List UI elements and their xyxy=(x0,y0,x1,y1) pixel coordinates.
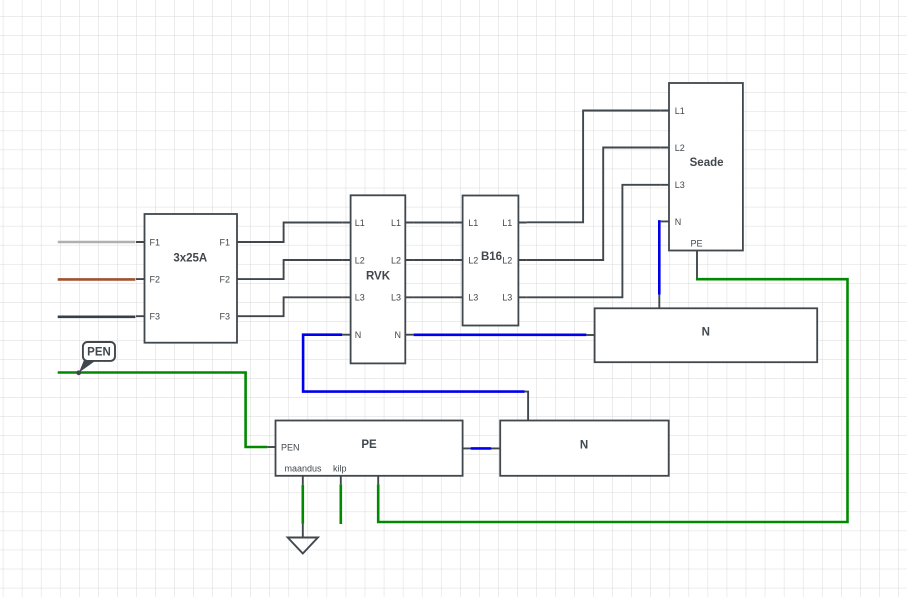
svg-text:L2: L2 xyxy=(502,255,512,265)
wire F3 3x25A to RVK L3 xyxy=(246,297,343,316)
svg-text:N: N xyxy=(702,327,710,339)
svg-text:RVK: RVK xyxy=(366,271,391,283)
stub dark PE box bottom pin 3 xyxy=(377,476,379,485)
svg-text:PEN: PEN xyxy=(281,443,300,453)
svg-text:F1: F1 xyxy=(150,237,161,247)
svg-text:PE: PE xyxy=(690,238,702,248)
busbar PE xyxy=(276,421,463,476)
device Seade xyxy=(661,83,743,251)
svg-text:maandus: maandus xyxy=(284,463,322,473)
svg-text:N: N xyxy=(355,330,362,340)
svg-text:L1: L1 xyxy=(391,218,401,228)
wire B16 L1 to Seade L1 xyxy=(527,111,661,223)
svg-text:L2: L2 xyxy=(391,255,401,265)
wire RVK L2 to B16 L2 xyxy=(414,259,455,261)
svg-text:F1: F1 xyxy=(219,237,230,247)
svg-text:L3: L3 xyxy=(355,293,365,303)
svg-text:L3: L3 xyxy=(468,293,478,303)
stub dark maandus pin xyxy=(302,476,304,485)
svg-text:L2: L2 xyxy=(468,255,478,265)
svg-text:L1: L1 xyxy=(468,218,478,228)
wire green PEN feeder xyxy=(58,373,268,448)
stub dark kilp pin xyxy=(340,476,342,485)
wire blue RVK N to N busbar left xyxy=(414,333,587,336)
svg-text:L1: L1 xyxy=(355,218,365,228)
busbar N upper xyxy=(586,308,817,362)
wire green PE loop Seade to PE box xyxy=(378,279,847,522)
svg-text:L2: L2 xyxy=(355,255,365,265)
wire dark riser into N box 2 top xyxy=(525,392,529,421)
svg-text:L3: L3 xyxy=(675,180,685,190)
ground symbol xyxy=(288,524,318,554)
svg-text:L3: L3 xyxy=(502,293,512,303)
svg-text:Seade: Seade xyxy=(690,157,724,169)
feeder wire L2 (brown) xyxy=(58,278,136,281)
svg-text:PE: PE xyxy=(361,439,377,451)
svg-text:B16: B16 xyxy=(481,251,502,263)
svg-text:F2: F2 xyxy=(219,275,230,285)
svg-text:L1: L1 xyxy=(675,106,685,116)
breaker B16 xyxy=(454,196,526,326)
wire RVK L1 to B16 L1 xyxy=(414,222,455,224)
svg-text:L2: L2 xyxy=(675,143,685,153)
svg-text:F3: F3 xyxy=(150,312,161,322)
wire F2 3x25A to RVK L2 xyxy=(246,260,343,279)
distribution board RVK xyxy=(342,195,413,363)
svg-text:F2: F2 xyxy=(150,275,161,285)
svg-text:F3: F3 xyxy=(219,312,230,322)
wire F1 3x25A to RVK L1 xyxy=(246,223,343,243)
breaker 3x25A xyxy=(136,214,246,343)
wire green maandus segment xyxy=(301,485,304,524)
wire blue connector PE box to N box 2 xyxy=(463,447,501,449)
wire blue Seade N down to N busbar xyxy=(659,221,660,294)
wire green kilp stub xyxy=(339,484,342,524)
svg-text:N: N xyxy=(580,440,588,452)
busbar N lower xyxy=(500,421,669,476)
wire blue RVK N loop down xyxy=(303,335,524,392)
stub dark PE box left pin xyxy=(267,446,275,448)
feeder wire L3 (dark) xyxy=(58,315,136,318)
wire B16 L2 to Seade L2 xyxy=(527,148,661,261)
wire B16 L3 to Seade L3 xyxy=(527,185,661,297)
wire dark Seade PE drop xyxy=(696,251,698,279)
feeder wire L1 (gray) xyxy=(58,241,136,244)
svg-text:3x25A: 3x25A xyxy=(173,252,207,264)
wire RVK L3 to B16 L3 xyxy=(414,296,455,298)
callout PEN xyxy=(76,342,115,375)
stub dark N busbar top pin xyxy=(658,295,660,309)
svg-text:N: N xyxy=(675,217,682,227)
svg-text:L1: L1 xyxy=(502,218,512,228)
svg-text:kilp: kilp xyxy=(333,463,347,473)
svg-text:N: N xyxy=(395,330,402,340)
svg-text:PEN: PEN xyxy=(87,347,111,359)
svg-text:L3: L3 xyxy=(391,293,401,303)
